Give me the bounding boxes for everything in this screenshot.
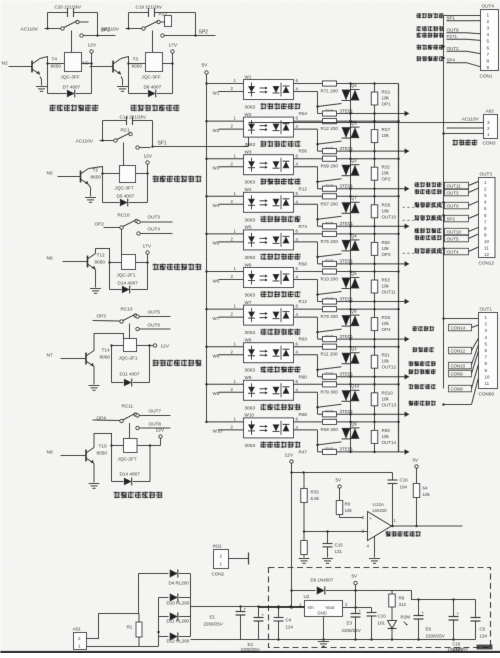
resistor RS10 (371, 393, 378, 406)
resistor R33 (301, 489, 308, 503)
pin 2 wire (219, 391, 244, 393)
wire (90, 62, 93, 65)
bottom rail (269, 639, 476, 641)
label OUT0 (415, 202, 442, 207)
capacitor C16 (392, 473, 394, 481)
wire (127, 62, 130, 65)
wire (146, 261, 149, 264)
optocoupler W3 (244, 155, 294, 175)
bottom frame line (1, 651, 500, 653)
diode D4 (158, 632, 160, 647)
optocoupler W4 (244, 192, 294, 212)
wire (229, 558, 249, 560)
gate wire (318, 104, 342, 107)
wire (129, 12, 149, 14)
wire 12V down (291, 473, 293, 591)
node SF1 (151, 145, 154, 148)
node SP2 (194, 34, 197, 37)
wire (48, 12, 68, 14)
pin 4 wire (294, 354, 318, 356)
mech link (129, 423, 131, 439)
pin 1 wire (205, 383, 208, 386)
label beidudai rev (417, 45, 444, 50)
wire (101, 172, 104, 175)
gate row resistor R60 (318, 263, 399, 265)
gate row resistor R56 (318, 150, 399, 152)
arrow out (399, 188, 406, 190)
ground (369, 558, 380, 560)
wire to CON3 (248, 123, 250, 147)
optocoupler W8 (244, 343, 294, 363)
resistor 64 10k (413, 484, 420, 498)
wire (110, 444, 113, 447)
arrow out (399, 113, 406, 115)
mech link (121, 230, 123, 255)
node SP2 (96, 34, 99, 37)
gate row resistor R54 (318, 113, 399, 115)
gate wire (318, 254, 342, 257)
gate wire (318, 179, 342, 182)
wire (412, 591, 476, 600)
ground U2 (323, 617, 325, 641)
arrow out (399, 376, 406, 378)
mech link (123, 143, 125, 166)
relay coil JQC-2FT (124, 439, 138, 453)
op-amp U12A LM158 (368, 512, 392, 541)
resistor RS6 (371, 318, 378, 331)
wire (47, 64, 49, 94)
pin 1 wire (205, 270, 208, 273)
relay coil JQC-2F1 (124, 339, 137, 352)
mech link (71, 31, 73, 53)
gate row resistor R74 (318, 225, 399, 227)
minus input row (304, 531, 368, 533)
pin 4 wire (294, 128, 318, 130)
gate row resistor R12 (318, 188, 399, 190)
pin 6 wire / resistor R10 200 (294, 271, 399, 273)
wire (87, 646, 159, 648)
caption dongdudai (114, 492, 163, 499)
label SP2 (415, 215, 442, 220)
arrow out (399, 451, 406, 453)
resistor R59 (371, 430, 378, 443)
terminal 12V (153, 344, 156, 347)
pin 6 wire / resistor R79 300 (294, 383, 399, 385)
label OUT10 (415, 228, 442, 233)
wire (103, 120, 127, 122)
mech link (152, 31, 154, 53)
gate wire (318, 367, 342, 370)
capacitor C18 (449, 616, 459, 618)
relay contact SP (45, 28, 61, 30)
optocoupler W9 (244, 380, 294, 400)
optocoupler W6 (244, 268, 294, 288)
resistor lower (301, 541, 308, 555)
pin 2 wire (219, 354, 244, 356)
resistor RS1 (371, 92, 378, 105)
pin 6 wire / resistor R71 200 (294, 83, 399, 85)
ground (299, 558, 310, 560)
relay coil JQC-3FF (65, 53, 82, 72)
gate wire (318, 442, 342, 445)
pin 4 wire (294, 316, 318, 318)
resistor R58 (371, 242, 378, 255)
optocoupler W2 (244, 117, 294, 137)
wire (46, 62, 49, 65)
pin 4 wire (294, 203, 318, 205)
pin 6 wire / resistor R79 200 (294, 308, 399, 310)
mech link (129, 324, 131, 339)
label beidudai fwd (417, 33, 444, 38)
resistor R51 (371, 355, 378, 368)
caption xidudai (153, 264, 202, 271)
wire (249, 122, 484, 124)
label CON12 (413, 347, 435, 352)
label OUT3 (415, 189, 442, 194)
pin 1 wire (205, 421, 208, 424)
gate wire (318, 292, 342, 295)
wire (111, 446, 113, 482)
gate wire (318, 141, 342, 144)
wire (447, 127, 484, 129)
arrow out (399, 150, 406, 152)
wire (128, 13, 130, 29)
resistor R32 (371, 167, 378, 180)
rail + (191, 606, 305, 608)
relay coil JQC-3FT (120, 166, 136, 183)
caption nandudai (153, 360, 202, 367)
pin 6 wire / resistor R58 300 (294, 421, 399, 423)
wire (190, 574, 192, 637)
label CON14 (413, 326, 435, 331)
pin 2 wire (219, 128, 244, 130)
label CON9 (409, 369, 436, 374)
pin 1 wire (205, 233, 208, 236)
wire (109, 263, 111, 290)
label OUT11 (415, 182, 442, 187)
label zhuji power (453, 140, 478, 146)
caption nanshengjiang (131, 105, 180, 112)
resistor R53 (371, 280, 378, 293)
gate row resistor R80 (318, 376, 399, 378)
wire (148, 344, 151, 347)
gate wire (318, 216, 342, 219)
wire vin (259, 607, 305, 609)
wire (110, 344, 113, 347)
relay contact SP (126, 28, 142, 30)
pin 2 wire (219, 316, 244, 318)
ground (322, 558, 333, 560)
wire traces (403, 207, 443, 253)
label OUT4 (415, 248, 442, 253)
label dongshengjiang motor (409, 401, 436, 406)
label CON8 (409, 384, 436, 389)
ground (40, 77, 42, 80)
caption dongshengjiang (153, 176, 202, 183)
wire (138, 574, 140, 614)
wire (442, 132, 445, 135)
label OUT5 (415, 235, 442, 240)
resistor RS5 (371, 205, 378, 218)
gate wire (318, 329, 342, 332)
pin 1 wire (205, 120, 208, 123)
arrow out (399, 338, 406, 340)
pin 6 wire / resistor R12 200 (294, 120, 399, 122)
optocoupler W7 (244, 305, 294, 325)
arrow out (399, 225, 406, 227)
capacitor C15 (327, 532, 329, 544)
wire (128, 64, 130, 94)
relay coil JQC-2F1 (122, 255, 136, 270)
wire (149, 444, 152, 447)
pin 4 wire (294, 279, 318, 281)
pin 1 wire (205, 345, 208, 348)
ground (93, 464, 95, 483)
wire (111, 346, 113, 383)
wire (97, 13, 99, 36)
rail - (191, 639, 269, 641)
ground (121, 77, 123, 80)
wire (444, 15, 481, 17)
pin 6 wire / resistor R75 200 (294, 233, 399, 235)
arrow out (399, 301, 406, 303)
pin 6 wire / resistor R09 200 (294, 158, 399, 160)
resistor RS7 (371, 130, 378, 143)
optocoupler W1 (244, 80, 294, 100)
wires to CON60 (472, 325, 479, 328)
output row (392, 525, 463, 527)
wire (87, 614, 139, 639)
label xishengjiang motor (417, 13, 444, 18)
pin 2 wire (219, 91, 244, 93)
pin 2 wire (219, 241, 244, 243)
arrow out (399, 263, 406, 265)
wire (195, 13, 197, 36)
wire (171, 62, 174, 65)
optocoupler W10 (244, 418, 294, 438)
ground (95, 270, 97, 288)
pin 1 wire (205, 82, 208, 85)
wire 12V rail (292, 472, 393, 474)
label beishengjiang motor (417, 56, 444, 61)
pin 4 wire (294, 391, 318, 393)
gate wire (318, 404, 342, 407)
arrow out (399, 413, 406, 415)
pin 4 wire (294, 241, 318, 243)
pin 6 wire / resistor R11 200 (294, 346, 399, 348)
gate row resistor R68 (318, 413, 399, 415)
label CON10 (409, 361, 436, 366)
pin 2 wire (219, 429, 244, 431)
pin 4 wire (294, 166, 318, 168)
resistor R8 (389, 594, 396, 607)
wire (172, 64, 174, 94)
wire vout (343, 607, 372, 609)
gate row resistor R47 (318, 451, 399, 453)
bus (443, 16, 445, 134)
pin 4 wire (294, 429, 318, 431)
pin 1 wire (205, 308, 208, 311)
label beijitu motor (417, 26, 444, 31)
wire (47, 13, 49, 29)
pin 1 wire (205, 157, 208, 160)
relay coil JQC-3FF (146, 53, 163, 72)
wire (91, 64, 93, 94)
pin 4 wire (294, 91, 318, 93)
gate row resistor R12 (318, 301, 399, 303)
ground (89, 185, 91, 188)
pin 1 wire (205, 195, 208, 198)
wire (102, 174, 104, 203)
ground (93, 367, 95, 385)
optocoupler W5 (244, 230, 294, 250)
pin 2 wire (219, 203, 244, 205)
label undervoltage (386, 531, 421, 537)
pin 2 wire (219, 279, 244, 281)
caption xishengjiang (50, 105, 99, 112)
resistor R9 (336, 501, 343, 515)
wire (108, 261, 111, 264)
gate row resistor R63 (318, 338, 399, 340)
pin 6 wire / resistor R57 200 (294, 195, 399, 197)
wire (146, 172, 149, 175)
pin 2 wire (219, 166, 244, 168)
